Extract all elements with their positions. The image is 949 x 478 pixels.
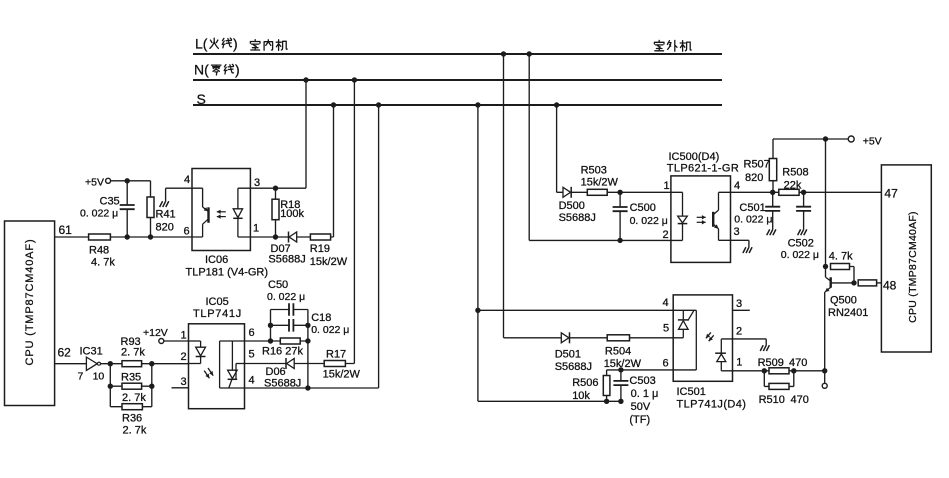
LED inside IC06 — [237, 188, 239, 209]
svg-text:C502: C502 — [788, 238, 814, 250]
svg-text:R508: R508 — [782, 167, 808, 179]
wire C50 row — [271, 309, 308, 311]
capacitor C500 — [612, 208, 629, 211]
svg-text:TLP621-1-GR: TLP621-1-GR — [667, 162, 739, 174]
junction C503 bottom — [618, 399, 623, 404]
svg-text:3: 3 — [734, 226, 740, 238]
svg-text:RN2401: RN2401 — [828, 307, 868, 319]
junction S bus / D500 tap — [554, 102, 559, 107]
resistor R504 — [607, 335, 629, 341]
svg-text:4: 4 — [184, 174, 190, 186]
transistor (photo) inside IC500 — [712, 212, 714, 227]
transistor Q500 RN2401 — [826, 277, 831, 281]
wire S tap to R19 — [333, 105, 335, 237]
svg-text:6: 6 — [663, 358, 669, 370]
wire R18 top lead — [275, 188, 277, 199]
junction R18 bottom — [273, 234, 278, 239]
svg-text:): ) — [235, 62, 240, 78]
ground chassis (IC500 pin3) — [743, 247, 752, 253]
svg-text:R510: R510 — [759, 394, 785, 406]
svg-text:C35: C35 — [100, 196, 120, 208]
junction R506 bottom — [604, 399, 609, 404]
ground chassis (C501) — [767, 229, 776, 235]
svg-text:1: 1 — [181, 330, 187, 342]
wire N tap to IC06 pin3 node — [305, 80, 307, 188]
junction right rail/pin4 rail — [305, 385, 310, 390]
light arrows IC06 — [217, 211, 226, 213]
svg-text:D06: D06 — [266, 366, 286, 378]
resistor R18 — [272, 199, 279, 220]
wire C503 top lead — [620, 370, 622, 381]
photo-thyristor cell IC501 — [695, 310, 697, 370]
wire Q500 emitter down — [824, 292, 826, 384]
svg-text:N(: N( — [194, 62, 209, 78]
junction R16 right — [305, 338, 310, 343]
power +5V terminal (left) — [106, 178, 111, 183]
wire +5V rail — [111, 180, 151, 182]
capacitor C501 — [764, 208, 781, 211]
resistor R506 — [603, 376, 610, 396]
svg-text:TLP741J: TLP741J — [193, 308, 242, 320]
svg-text:61: 61 — [59, 223, 73, 237]
wire IC501 pin6 node — [607, 369, 697, 371]
light arrows IC501 — [706, 332, 711, 338]
wire L tap to IC500 pin2 — [528, 54, 530, 240]
svg-text:IC06: IC06 — [205, 254, 228, 266]
junction 4.7k tap — [823, 264, 828, 269]
wire R506 bottom lead — [606, 396, 608, 402]
svg-text:820: 820 — [745, 172, 763, 184]
capacitor C502 — [795, 208, 812, 211]
wire bottom rail to C503 — [478, 400, 621, 402]
svg-text:5: 5 — [249, 349, 255, 361]
svg-text:R19: R19 — [310, 243, 330, 255]
svg-text:48: 48 — [883, 279, 897, 293]
svg-text:IC31: IC31 — [80, 346, 103, 358]
resistor R509 — [769, 368, 789, 374]
wire 4.7k to base node — [850, 267, 855, 283]
resistor R48 — [89, 234, 111, 240]
svg-text:2. 7k: 2. 7k — [121, 347, 145, 359]
wire R35 row — [110, 385, 152, 387]
svg-text:2. 7k: 2. 7k — [122, 392, 146, 404]
svg-text:R504: R504 — [605, 345, 631, 357]
svg-text:0. 1 μ: 0. 1 μ — [631, 388, 659, 400]
svg-text:R35: R35 — [121, 372, 141, 384]
resistor R508 — [779, 189, 799, 195]
junction C35/pin61 wire — [125, 234, 130, 239]
junction R41/pin61 wire — [148, 234, 153, 239]
svg-text:C503: C503 — [629, 375, 655, 387]
wire S tap to IC501 pin4 — [478, 309, 696, 311]
svg-text:10k: 10k — [572, 390, 590, 402]
resistor R35 — [122, 383, 142, 389]
wire +5V rail right — [773, 138, 849, 140]
wire IC05 pin3 stub — [172, 387, 189, 389]
wire IC05 pin4 rail to S tap — [220, 387, 379, 389]
svg-text:3: 3 — [254, 177, 260, 189]
light arrows IC500 — [697, 216, 706, 218]
label 室内机 — [250, 40, 260, 50]
wire parallel-R left rail — [109, 364, 111, 407]
svg-text:R503: R503 — [581, 165, 607, 177]
svg-text:6: 6 — [249, 327, 255, 339]
capacitor C50 — [290, 302, 293, 317]
photo-thyristor cell IC05 — [219, 341, 221, 388]
junction R507/R508/C501 — [770, 190, 775, 195]
resistor base-48 — [858, 280, 876, 286]
wire C501 bottom lead — [772, 211, 774, 230]
svg-text:S5688J: S5688J — [268, 253, 305, 265]
capacitor C503 — [612, 382, 629, 385]
wire CPU pin62 to IC31 — [55, 363, 87, 365]
junction R509 right — [791, 368, 796, 373]
svg-text:50V: 50V — [631, 401, 651, 413]
wire L tap D501 R504 to IC501 pin5 — [504, 337, 684, 339]
svg-text:0. 022 μ: 0. 022 μ — [630, 215, 668, 227]
wire S tap to IC05 pin4 rail — [378, 105, 380, 388]
resistor R93 — [122, 361, 142, 367]
svg-text:IC500(D4): IC500(D4) — [669, 151, 720, 163]
wire S tap to IC500 pin1 — [557, 191, 683, 193]
svg-text:+12V: +12V — [143, 327, 168, 339]
diode D06 S5688J — [287, 359, 295, 369]
junction N bus / R17 tap — [352, 77, 357, 82]
svg-text:(TF): (TF) — [629, 414, 650, 426]
wire R41 bottom lead — [150, 218, 152, 238]
resistor R16 — [280, 338, 300, 344]
power +5V terminal (right) — [848, 136, 854, 142]
svg-text:): ) — [233, 36, 238, 52]
junction C18 left — [268, 323, 273, 328]
svg-text:C18: C18 — [311, 312, 331, 324]
svg-text:15k/2W: 15k/2W — [323, 369, 361, 381]
LED inside IC501 — [720, 339, 722, 353]
svg-text:C50: C50 — [268, 279, 288, 291]
wire L tap to IC500 pin2 — [529, 239, 682, 241]
wire IC06 pin1 to R19/S tap — [238, 236, 334, 238]
svg-text:1: 1 — [664, 180, 670, 192]
svg-text:D501: D501 — [555, 348, 581, 360]
op-coupler IC05 TLP741J outline — [189, 324, 245, 409]
svg-text:4: 4 — [734, 180, 740, 192]
resistor R510 — [769, 383, 789, 389]
wire IC500 pin3 — [719, 239, 749, 241]
svg-text:IC501: IC501 — [677, 386, 706, 398]
svg-text:62: 62 — [58, 346, 72, 360]
wire +12V to IC05 pin1 — [164, 340, 189, 342]
svg-text:3: 3 — [736, 298, 742, 310]
wire R510 left rail — [763, 371, 765, 387]
junction IC31 out — [108, 361, 113, 366]
resistor R17 — [324, 361, 345, 367]
op-coupler IC500 TLP621 outline — [671, 176, 731, 263]
svg-text:C501: C501 — [739, 202, 765, 214]
ground chassis (IC501 pin2) — [760, 345, 769, 351]
svg-text:R509: R509 — [758, 357, 784, 369]
wire Q500 base — [831, 282, 854, 284]
svg-text:S5688J: S5688J — [559, 212, 596, 224]
wire R507 bottom lead — [772, 181, 774, 193]
wire S tap down right section — [477, 105, 479, 401]
wire R510 right rail — [793, 371, 795, 387]
svg-text:CPU (TMP87CM40AF): CPU (TMP87CM40AF) — [24, 239, 36, 366]
junction R35 left — [108, 384, 113, 389]
junction R18 top — [273, 186, 278, 191]
svg-text:S5688J: S5688J — [555, 361, 592, 373]
wire R41 top lead — [150, 181, 152, 197]
wire C501 top lead — [772, 192, 774, 207]
diode D500 S5688J — [563, 187, 571, 197]
svg-text:4: 4 — [663, 297, 669, 309]
svg-text:4. 7k: 4. 7k — [91, 257, 115, 269]
ground chassis (IC06 pin4) — [160, 201, 169, 207]
resistor R503 — [587, 189, 607, 195]
junction N bus / IC06 pin3 tap — [303, 77, 308, 82]
wire C50/C18 right rail — [307, 310, 309, 389]
LED inside IC05 — [189, 340, 201, 342]
svg-text:2. 7k: 2. 7k — [123, 425, 147, 437]
svg-text:0. 022 μ: 0. 022 μ — [267, 291, 305, 303]
wire to CPU pin48 — [877, 282, 882, 284]
svg-text:2: 2 — [663, 229, 669, 241]
transistor (photo) inside IC06 — [202, 188, 204, 207]
wire C18 row — [271, 324, 308, 326]
svg-text:100k: 100k — [280, 208, 304, 220]
wire C50/C18 left rail — [270, 310, 272, 342]
svg-text:4. 7k: 4. 7k — [829, 251, 853, 263]
svg-text:2: 2 — [181, 351, 187, 363]
svg-text:Q500: Q500 — [830, 294, 857, 306]
resistor R 4.7k — [831, 264, 850, 270]
wire CPU pin61 to IC06 pin6 — [55, 236, 203, 238]
svg-text:TLP741J(D4): TLP741J(D4) — [677, 398, 747, 410]
junction C503 top — [618, 367, 623, 372]
diode D07 S5688J — [289, 232, 297, 242]
junction Q500 base node — [851, 280, 856, 285]
svg-text:0. 022 μ: 0. 022 μ — [734, 214, 772, 226]
LED inside IC500 — [682, 192, 684, 216]
resistor R507 — [769, 159, 776, 181]
svg-text:CPU (TMP87CM40AF): CPU (TMP87CM40AF) — [907, 211, 919, 323]
junction +5V/C35 — [125, 178, 130, 183]
svg-text:2: 2 — [736, 326, 742, 338]
capacitor C35 — [119, 206, 136, 209]
svg-text:TLP181 (V4-GR): TLP181 (V4-GR) — [186, 266, 269, 278]
svg-text:5: 5 — [663, 323, 669, 335]
resistor R19 — [310, 234, 330, 240]
svg-text:1: 1 — [253, 223, 259, 235]
wire C500 top lead — [619, 192, 621, 207]
op-coupler IC501 TLP741J outline — [673, 295, 732, 381]
svg-text:R36: R36 — [122, 413, 142, 425]
wire IC06 pin4 — [166, 187, 203, 189]
svg-text:R48: R48 — [89, 245, 109, 257]
wire R18 bottom lead — [275, 220, 277, 237]
svg-text:R507: R507 — [744, 159, 770, 171]
wire IC05 pin5 inside — [236, 363, 245, 365]
junction S bus / IC05 pin4 tap — [376, 102, 381, 107]
wire IC500 pin4 to CPU pin47 — [719, 191, 882, 193]
wire S tap to D500 — [556, 105, 558, 192]
CPU IC (TMP87CM40AF) indoor — [5, 221, 55, 406]
junction pin6/left rail — [268, 338, 273, 343]
junction L bus / D501 tap — [501, 51, 506, 56]
svg-text:L(: L( — [195, 36, 208, 52]
resistor R36 — [122, 404, 142, 410]
capacitor C18 — [290, 318, 293, 333]
junction C500 bottom — [617, 238, 622, 243]
wire C502 bottom lead — [803, 211, 805, 230]
resistor R41 — [147, 197, 154, 218]
svg-text:6: 6 — [184, 226, 190, 238]
label 室外机 — [654, 40, 664, 50]
wire L tap to D501 — [503, 54, 505, 338]
buffer IC31 — [86, 357, 97, 370]
wire C35 bottom lead — [126, 209, 128, 237]
junction S bus / right tap — [475, 102, 480, 107]
wire R507 top lead — [772, 139, 774, 159]
wire R510 row — [764, 385, 794, 387]
junction R508/C502 — [801, 190, 806, 195]
junction R509 left — [762, 368, 767, 373]
svg-text:820: 820 — [156, 222, 174, 234]
wire IC06 pin3 to N tap — [238, 187, 306, 189]
svg-text:R16 27k: R16 27k — [262, 346, 303, 358]
wire C503 bottom lead — [620, 386, 622, 402]
svg-text:0. 022 μ: 0. 022 μ — [80, 208, 118, 220]
wire +5V to Q500 collector — [825, 139, 827, 277]
svg-text:15k/2W: 15k/2W — [581, 177, 619, 189]
junction R35 right — [149, 384, 154, 389]
diode D501 S5688J — [561, 333, 569, 343]
wire IC500 pin3 ground stub — [748, 240, 750, 247]
svg-text:+5V: +5V — [863, 135, 882, 147]
svg-text:470: 470 — [791, 394, 809, 406]
junction L bus / IC500 pin2 tap — [527, 51, 532, 56]
svg-text:IC05: IC05 — [206, 296, 229, 308]
svg-text:470: 470 — [789, 357, 807, 369]
wire C35 top lead — [126, 181, 128, 206]
junction C500 top — [617, 190, 622, 195]
wire R36 row — [110, 406, 152, 408]
wire parallel-R right rail — [151, 364, 153, 407]
svg-text:3: 3 — [181, 376, 187, 388]
svg-text:15k/2W: 15k/2W — [310, 256, 348, 268]
junction +5V rail — [823, 136, 828, 141]
wire IC06 pin4 to ground stub — [165, 188, 167, 201]
wire R506 top lead — [606, 370, 608, 376]
svg-text:C500: C500 — [630, 202, 656, 214]
svg-text:+5V: +5V — [85, 176, 104, 188]
wire IC501 pin1 / R509 row — [721, 370, 824, 372]
svg-text:R41: R41 — [156, 209, 176, 221]
light arrows IC05 — [204, 371, 209, 379]
svg-text:4: 4 — [249, 375, 255, 387]
wire N bus — [193, 79, 722, 81]
svg-text:22k: 22k — [784, 179, 802, 191]
wire IC31 out to IC05 pin2 — [101, 363, 189, 365]
junction IC501 pin4 tap — [475, 308, 480, 313]
op-coupler IC06 TLP181 outline — [192, 169, 250, 251]
svg-text:7: 7 — [78, 371, 84, 383]
junction C18 right — [305, 323, 310, 328]
junction Q500 emitter / R509 — [822, 368, 827, 373]
wire IC501 pin3 stub — [733, 309, 750, 311]
svg-text:R506: R506 — [572, 377, 598, 389]
wire IC501 pin2 to ground — [721, 338, 766, 340]
terminal Q500 emitter — [822, 383, 827, 388]
svg-text:47: 47 — [884, 187, 898, 201]
wire C500 bottom lead — [619, 211, 621, 240]
wire IC05 pin6 node — [220, 340, 308, 342]
CPU IC (TMP87CM40AF) outdoor — [881, 165, 931, 352]
junction S bus / R19 tap — [331, 102, 336, 107]
svg-text:0. 022 μ: 0. 022 μ — [311, 324, 349, 336]
wire S bus — [193, 104, 722, 106]
wire N tap to R17 — [353, 80, 355, 364]
wire pin2 ground stub — [765, 339, 767, 345]
power +12V terminal — [159, 339, 164, 344]
svg-text:10: 10 — [93, 371, 105, 383]
svg-text:1: 1 — [736, 357, 742, 369]
ground chassis (C502) — [798, 229, 807, 235]
wire L bus (indoor-outdoor line L) — [193, 53, 722, 55]
junction R93 right — [149, 361, 154, 366]
wire IC05 pin5 to R17/N tap — [245, 363, 355, 365]
svg-text:0. 022 μ: 0. 022 μ — [781, 249, 819, 261]
svg-text:S: S — [197, 91, 206, 107]
wire C502 top lead — [803, 192, 805, 207]
svg-text:R17: R17 — [326, 349, 346, 361]
svg-text:D500: D500 — [559, 200, 585, 212]
